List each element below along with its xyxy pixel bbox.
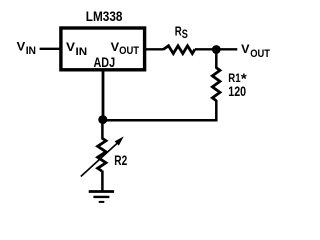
resistor R2 (variable) [98, 138, 106, 171]
label RS [175, 24, 188, 42]
arrow across R2 (variable symbol) [81, 136, 124, 176]
svg-text:OUT: OUT [250, 48, 270, 60]
pin VIN (inside box) [66, 40, 87, 58]
svg-text:IN: IN [26, 45, 36, 57]
ground [89, 192, 114, 202]
wire box VOUT pin to RS [145, 48, 164, 50]
node VOUT (output terminal label) [241, 42, 270, 60]
svg-text:R2: R2 [114, 153, 127, 168]
svg-text:ADJ: ADJ [94, 55, 116, 70]
svg-text:V: V [66, 40, 75, 54]
svg-text:LM338: LM338 [86, 9, 123, 24]
svg-text:V: V [241, 42, 249, 56]
node junction dot ADJ / R1 / R2 [98, 115, 107, 124]
wire junction to R2 [101, 122, 104, 139]
svg-text:V: V [17, 39, 26, 53]
svg-text:IN: IN [76, 46, 88, 58]
svg-text:S: S [182, 29, 188, 41]
svg-text:R1: R1 [228, 71, 240, 85]
resistor R1 [212, 68, 220, 101]
svg-text:OUT: OUT [119, 45, 139, 57]
wire RS to VOUT terminal [195, 48, 238, 50]
wire junction down to R1 [215, 52, 218, 69]
wire ADJ pin down to junction [102, 70, 105, 117]
wire VIN label to box [40, 48, 60, 50]
pin VOUT (inside box) [111, 40, 140, 57]
op-amp U1 LM338 regulator box [61, 28, 145, 70]
wire R2 to ground [101, 171, 104, 192]
node junction dot at RS / R1 / VOUT [212, 45, 221, 54]
wire R1 bottom, corner, to ADJ junction [103, 100, 217, 120]
svg-text:V: V [111, 40, 120, 54]
node VIN (input terminal label) [17, 39, 36, 57]
svg-text:120: 120 [228, 84, 246, 99]
resistor RS [163, 46, 195, 54]
